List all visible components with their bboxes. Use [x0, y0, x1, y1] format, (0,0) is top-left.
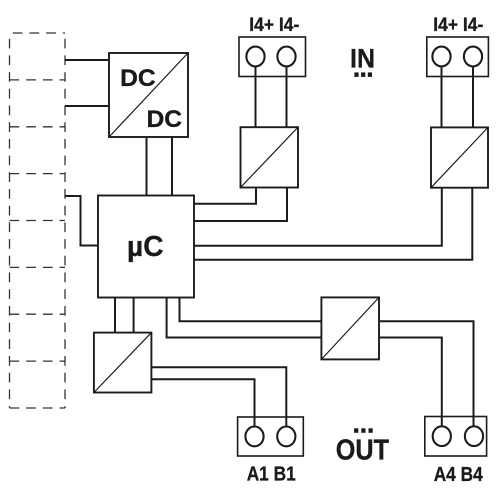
isolation amplifier U5 (OUT1): [94, 333, 151, 393]
terminal OUT4 pin A4: [433, 426, 451, 446]
svg-text:µC: µC: [127, 231, 164, 263]
wire uC to U3 left pin: [194, 188, 256, 204]
wire IN1 left pin to isolator: [255, 67, 257, 127]
wire U5 upper pin to B1: [151, 367, 286, 426]
terminal block OUT1 body: [238, 417, 304, 456]
microcontroller U2: [98, 196, 194, 298]
wire uC to U4 left pin: [194, 188, 442, 246]
bus connector X1 (dashed left column): [10, 33, 66, 408]
wire uC to U6 upper pin: [180, 298, 322, 322]
wire DC/DC to uC left: [146, 137, 148, 196]
wire DC/DC to uC right: [171, 137, 173, 196]
isolation amplifier U4 (IN4): [431, 127, 488, 187]
wire uC to U4 right pin: [194, 188, 472, 260]
svg-text:DC: DC: [120, 65, 156, 92]
terminal OUT1 pin B1: [277, 427, 295, 447]
svg-text:A4 B4: A4 B4: [434, 463, 483, 486]
wire bus to uC: [65, 196, 98, 246]
wire uC to U6 lower pin: [167, 298, 322, 338]
IN ellipsis dots: [354, 72, 372, 77]
svg-text:IN: IN: [350, 43, 375, 73]
terminal block IN1: [239, 37, 306, 77]
isolation amplifier U6 (OUT4): [321, 297, 379, 359]
wire bus to DC/DC lower: [65, 105, 109, 107]
wire U6 lower pin to A4: [379, 338, 442, 426]
svg-text:DC: DC: [147, 106, 183, 133]
svg-text:I4+ I4-: I4+ I4-: [249, 14, 299, 36]
wire U6 upper pin to B4: [379, 321, 474, 426]
isolation amplifier U3 (IN1): [241, 127, 299, 187]
wire IN4 left pin to isolator: [441, 67, 443, 127]
wire uC to U3 right pin: [194, 188, 287, 222]
wire IN1 right pin to isolator: [286, 67, 288, 127]
OUT ellipsis dots: [354, 428, 373, 433]
terminal block IN4: [427, 37, 489, 77]
DC/DC converter U1: [109, 53, 188, 137]
svg-text:A1 B1: A1 B1: [247, 463, 296, 486]
wire uC to U5 left pin: [114, 298, 116, 333]
wire IN4 right pin to isolator: [472, 67, 474, 127]
svg-text:OUT: OUT: [336, 435, 390, 467]
svg-text:I4+ I4-: I4+ I4-: [433, 14, 483, 36]
wire uC to U5 right pin: [133, 298, 135, 333]
wire U5 lower pin to A1: [151, 379, 255, 426]
terminal block OUT4 body: [425, 417, 487, 457]
terminal OUT1 pin A1: [245, 427, 263, 447]
wire bus to DC/DC upper: [65, 59, 109, 61]
terminal OUT4 pin B4: [465, 426, 483, 446]
